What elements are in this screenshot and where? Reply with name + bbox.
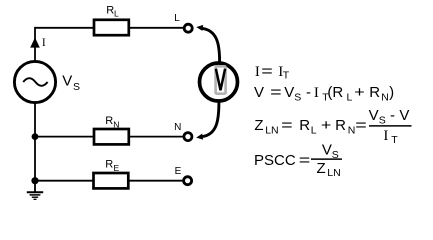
source VS circle xyxy=(14,61,55,102)
svg-text:R: R xyxy=(335,117,346,134)
svg-text:Z: Z xyxy=(317,160,326,177)
resistor RN xyxy=(94,129,129,144)
svg-text:-: - xyxy=(306,84,311,101)
svg-text:I: I xyxy=(314,85,319,101)
voltmeter lead wire (thin, behind meter face) xyxy=(218,62,220,102)
svg-text:R: R xyxy=(106,4,114,16)
svg-text:N: N xyxy=(174,122,181,133)
terminal L xyxy=(184,24,192,32)
node junction dot at E rail xyxy=(31,177,38,184)
svg-text:L: L xyxy=(347,91,353,103)
svg-text:=: = xyxy=(281,117,293,134)
svg-text:L: L xyxy=(114,8,119,18)
ground xyxy=(27,181,43,200)
svg-text:Z: Z xyxy=(254,117,263,134)
svg-text:N: N xyxy=(113,119,119,129)
svg-text:R: R xyxy=(369,84,380,101)
svg-text:LN: LN xyxy=(327,167,340,179)
svg-text:L: L xyxy=(174,13,180,24)
svg-text:V: V xyxy=(284,84,294,101)
svg-text:N: N xyxy=(381,91,389,103)
equation 1: I = IT xyxy=(255,63,290,82)
svg-text:S: S xyxy=(73,81,80,93)
node junction dot at N rail xyxy=(32,133,39,140)
resistor RL xyxy=(94,20,129,35)
voltmeter body xyxy=(200,63,238,101)
svg-text:T: T xyxy=(283,70,290,82)
svg-text:LN: LN xyxy=(265,124,278,136)
voltmeter face gray rect xyxy=(216,66,226,93)
voltmeter probe arrow to N xyxy=(203,103,219,137)
equation 3: ZLN = RL + RN = (VS - V)/IT xyxy=(254,107,411,146)
equation 2: V = VS - IT(RL + RN) xyxy=(254,84,394,103)
voltmeter V glyph xyxy=(216,69,225,91)
svg-text:-: - xyxy=(390,107,395,124)
svg-text:=: = xyxy=(299,152,311,169)
voltmeter probe arrow to L xyxy=(203,28,220,61)
svg-text:V: V xyxy=(369,107,379,124)
sine wave xyxy=(23,78,47,86)
svg-text:+: + xyxy=(321,117,332,134)
svg-text:N: N xyxy=(348,124,356,136)
svg-text:V: V xyxy=(62,73,72,90)
svg-text:L: L xyxy=(311,124,317,136)
resistor RE xyxy=(94,173,129,188)
svg-text:T: T xyxy=(391,134,398,146)
wire top L line xyxy=(35,27,183,29)
svg-text:I: I xyxy=(383,128,388,144)
equation 4: PSCC = VS/ZLN xyxy=(254,142,342,179)
wire E line xyxy=(35,180,183,182)
svg-text:V: V xyxy=(254,84,264,101)
svg-text:V: V xyxy=(399,107,409,124)
svg-text:): ) xyxy=(389,84,394,101)
eq3 fraction bar xyxy=(369,125,412,127)
svg-text:E: E xyxy=(175,166,182,177)
svg-text:=: = xyxy=(270,84,282,101)
terminal N xyxy=(184,133,192,141)
svg-text:E: E xyxy=(114,163,120,173)
svg-text:=: = xyxy=(261,63,273,80)
svg-text:PSCC: PSCC xyxy=(254,152,296,169)
svg-text:=: = xyxy=(355,117,367,134)
svg-text:I: I xyxy=(42,37,46,49)
svg-text:S: S xyxy=(379,115,386,127)
svg-text:I: I xyxy=(255,64,260,80)
svg-text:S: S xyxy=(294,91,301,103)
svg-text:R: R xyxy=(299,117,310,134)
svg-text:(R: (R xyxy=(327,84,343,101)
svg-text:V: V xyxy=(322,142,332,159)
svg-text:R: R xyxy=(105,115,113,127)
wire N line xyxy=(35,136,183,138)
eq4 fraction bar xyxy=(311,158,342,160)
svg-text:R: R xyxy=(105,159,113,171)
terminal E xyxy=(184,177,192,185)
wire left vertical rail xyxy=(34,27,36,181)
current arrow I xyxy=(30,38,40,48)
svg-text:+: + xyxy=(354,84,365,101)
